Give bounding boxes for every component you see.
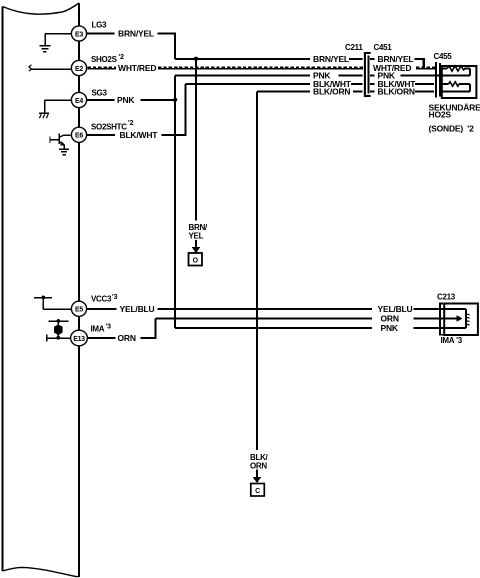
potentiometer element inside box	[466, 309, 470, 328]
svg-text:IMA '3: IMA '3	[441, 336, 463, 345]
wire BLK/WHT from E6	[87, 130, 187, 140]
terminal E3	[71, 26, 86, 41]
svg-text:WHT/RED: WHT/RED	[118, 63, 156, 73]
wire BRN/YEL row to C211	[175, 54, 363, 64]
svg-text:YEL/BLU: YEL/BLU	[378, 304, 413, 314]
wire YEL/BLU from E5	[87, 304, 466, 314]
wire BRN/YEL vertical elbow down	[174, 34, 176, 60]
label BRN/YEL at off-page arrow	[189, 223, 208, 240]
wire PNK riser up and long drop	[174, 76, 176, 329]
wire BLK/ORN row to C211	[257, 86, 363, 96]
wire BRN/YEL right elbow down to splice	[423, 59, 425, 69]
ECM/PCM right boundary (terminal) line	[78, 3, 80, 577]
terminal E4	[71, 92, 86, 107]
connector C211/C451 labels	[345, 43, 363, 52]
svg-text:C211: C211	[345, 43, 363, 52]
terminal E2	[71, 60, 86, 75]
connector C451 half (right bar)	[367, 56, 369, 94]
ECM/PCM torn top edge	[3, 3, 80, 14]
sensor symbol at E13	[47, 319, 71, 341]
svg-text:(SONDE) '2: (SONDE) '2	[429, 124, 475, 134]
wire PNK row to C211	[175, 70, 363, 80]
transistor Q at E6	[50, 134, 71, 155]
svg-text:PNK: PNK	[381, 323, 399, 333]
wire ORN riser	[154, 319, 156, 339]
wire BLK/ORN long drop to off-page C	[256, 92, 258, 451]
wire BLK/WHT right of C451	[370, 79, 434, 89]
wire BRN/YEL right of C451	[370, 54, 425, 64]
svg-text:'3: '3	[106, 323, 112, 330]
svg-text:E5: E5	[75, 307, 83, 314]
wire WHT/RED dashed from E2	[88, 63, 364, 73]
connector C455 label	[434, 52, 453, 61]
ground symbol at E3	[39, 34, 71, 52]
wire PNK row to C213	[175, 323, 466, 333]
connector C211 half (left bracket)	[365, 53, 371, 96]
wire WHT/RED right of C451 (dashed)	[373, 63, 436, 73]
wire ORN from E13	[88, 333, 157, 343]
svg-text:BRN/YEL: BRN/YEL	[118, 28, 154, 38]
svg-text:E4: E4	[75, 98, 83, 105]
shield tick at E2	[29, 65, 32, 71]
svg-text:E3: E3	[75, 31, 83, 38]
svg-text:'2: '2	[119, 54, 125, 61]
pin label IMA *3	[91, 323, 112, 333]
ECM/PCM torn bottom edge	[3, 567, 80, 576]
pin label SO2SHTC *2	[91, 120, 134, 131]
svg-text:C455: C455	[434, 52, 453, 61]
wire BLK/ORN right of C451	[370, 86, 434, 96]
junction node BRN/YEL branch	[194, 57, 198, 61]
terminal E6	[71, 127, 86, 142]
wire BLK/WHT row to C211	[186, 79, 363, 89]
svg-text:ORN: ORN	[118, 333, 136, 343]
svg-text:O: O	[193, 257, 199, 264]
pin label SHO2S *2	[91, 54, 124, 64]
svg-text:SG3: SG3	[92, 89, 108, 98]
svg-text:E13: E13	[73, 336, 85, 343]
off-page arrow C	[253, 470, 262, 484]
svg-text:YEL/BLU: YEL/BLU	[120, 304, 155, 314]
IMA motor/sensor box	[444, 304, 478, 336]
connector C455 bars	[436, 62, 440, 98]
connector C213 bracket	[439, 303, 443, 336]
svg-text:BLK/ORN: BLK/ORN	[313, 86, 350, 96]
pin label LG3	[92, 21, 108, 30]
label SEKUNDARE HO2S (SONDE) *2	[429, 103, 480, 134]
svg-text:ORN: ORN	[381, 313, 399, 323]
junction node PNK	[173, 98, 177, 102]
off-page connector box O	[189, 253, 203, 266]
pin label VCC3 *3	[91, 294, 118, 304]
sensor element (zigzag)	[440, 66, 470, 76]
terminal E13	[71, 330, 88, 346]
label BLK/ORN at off-page arrow	[250, 453, 269, 470]
svg-text:IMA: IMA	[91, 324, 105, 333]
voltage reference symbol at E5	[34, 296, 71, 310]
off-page connector box C	[251, 484, 264, 497]
svg-text:C: C	[255, 488, 260, 495]
svg-text:YEL: YEL	[189, 231, 204, 240]
svg-text:BLK/WHT: BLK/WHT	[120, 130, 159, 140]
wire PNK right of C451 into sensor	[370, 70, 470, 80]
svg-text:C213: C213	[437, 293, 456, 302]
svg-text:BLK/ORN: BLK/ORN	[378, 86, 415, 96]
wire BRN/YEL from E3	[87, 28, 176, 38]
secondary HO2S sensor box	[442, 66, 477, 98]
svg-text:'3: '3	[112, 294, 118, 301]
svg-text:LG3: LG3	[92, 21, 108, 30]
chassis ground at E4	[39, 100, 72, 118]
wire to E2 (left)	[31, 68, 72, 70]
pin label SG3	[92, 89, 108, 98]
svg-text:PNK: PNK	[117, 95, 135, 105]
label IMA *3 at box	[441, 336, 463, 345]
off-page arrow O	[192, 240, 201, 253]
svg-text:BRN/YEL: BRN/YEL	[313, 54, 349, 64]
terminal E5	[71, 301, 86, 316]
ECM/PCM left boundary line	[2, 7, 4, 572]
svg-text:ORN: ORN	[250, 461, 267, 470]
svg-text:'2: '2	[128, 120, 134, 127]
wire PNK from E4	[87, 95, 176, 105]
heater element (zigzag)	[440, 82, 470, 92]
svg-text:VCC3: VCC3	[91, 295, 112, 304]
svg-text:HO2S: HO2S	[429, 110, 452, 120]
wire BRN/YEL branch down to off-page O	[195, 59, 197, 221]
svg-text:C451: C451	[374, 43, 393, 52]
connector C213 label	[437, 293, 456, 302]
svg-text:E6: E6	[75, 133, 83, 140]
wire BLK/WHT riser	[184, 84, 186, 135]
wiper arrow (ORN)	[444, 315, 463, 322]
svg-text:E2: E2	[75, 66, 83, 73]
wire ORN row to C213	[156, 313, 459, 323]
svg-text:SHO2S: SHO2S	[91, 55, 118, 64]
